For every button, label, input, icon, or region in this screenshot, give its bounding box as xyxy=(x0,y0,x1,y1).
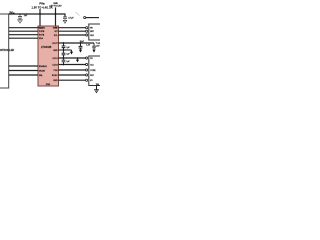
svg-text:VOUT: VOUT xyxy=(52,43,58,45)
wire RSTB left xyxy=(9,34,38,36)
svg-text:ROSC: ROSC xyxy=(52,75,58,77)
ground for C1 xyxy=(18,20,23,23)
svg-text:ENABLE: ENABLE xyxy=(39,65,48,68)
svg-text:LDO2: LDO2 xyxy=(52,64,58,66)
terminal aux xyxy=(84,17,86,19)
terminal INT xyxy=(86,30,88,32)
wire GND rail xyxy=(59,49,72,51)
svg-text:GND: GND xyxy=(53,80,58,82)
svg-text:CONTROLLER: CONTROLLER xyxy=(0,49,14,52)
terminal LDO2 xyxy=(86,63,88,65)
svg-text:SDA: SDA xyxy=(39,37,44,40)
wire VOUT rail xyxy=(59,42,95,44)
terminal PG xyxy=(86,27,88,29)
svg-text:4.7µF: 4.7µF xyxy=(68,17,74,19)
wire PVIN drop xyxy=(39,9,41,26)
svg-text:MODE: MODE xyxy=(39,70,46,72)
terminal GND2 xyxy=(86,79,88,81)
ground arrow LDO1 rail xyxy=(77,58,79,60)
svg-text:LDO1: LDO1 xyxy=(52,58,58,60)
junction LDO2 xyxy=(63,64,65,66)
junction VOUT C3 xyxy=(63,42,65,44)
capacitor C7 xyxy=(62,58,66,65)
svg-text:PGFB: PGFB xyxy=(39,31,45,33)
terminal SCL xyxy=(86,34,88,36)
wire SVIN drop xyxy=(55,7,57,26)
svg-text:CORE: CORE xyxy=(90,70,96,72)
capacitor C6 xyxy=(62,50,66,58)
junction at SVIN rail xyxy=(55,13,57,15)
junction GND C3 xyxy=(63,49,65,51)
ground arrow GND rail xyxy=(71,50,73,52)
svg-text:PG: PG xyxy=(55,28,58,30)
junction C1 rail xyxy=(19,13,21,15)
ground for C2 xyxy=(63,20,67,23)
junction at PVIN rail xyxy=(39,13,41,15)
svg-text:1.8V: 1.8V xyxy=(96,46,100,48)
wire INT to load xyxy=(59,30,86,32)
PVIN input rail xyxy=(9,13,56,15)
ground load2 xyxy=(95,90,99,93)
load block 2 xyxy=(89,56,102,86)
wire MODE xyxy=(9,70,38,72)
svg-text:GND: GND xyxy=(46,84,51,86)
wire LDO1 rail xyxy=(59,57,86,59)
svg-text:GND: GND xyxy=(53,50,58,52)
load block 1 xyxy=(89,24,102,40)
mark diagonal xyxy=(76,12,80,16)
capacitor C2 xyxy=(63,17,67,20)
IC U1 LTC3445 xyxy=(38,26,59,86)
wire aux xyxy=(86,17,99,19)
terminal PGOOD2 xyxy=(86,69,88,71)
wire ROSC rail xyxy=(59,74,86,76)
junction LDO1 xyxy=(63,57,65,59)
wire PGOOD2 rail xyxy=(59,69,86,71)
wire SEL xyxy=(9,74,38,76)
svg-text:RSTB: RSTB xyxy=(39,35,45,37)
svg-text:2.5V TO 5.5V: 2.5V TO 5.5V xyxy=(50,6,63,8)
wire SCL to load xyxy=(59,34,86,36)
svg-text:LTC3445: LTC3445 xyxy=(41,46,52,49)
wire LDO2 rail xyxy=(59,64,86,66)
capacitor C3 xyxy=(62,43,66,50)
wire SDA left xyxy=(9,30,38,32)
wire CLKIN left xyxy=(9,37,38,39)
capacitor C5 xyxy=(92,43,96,50)
wire ENABLE xyxy=(9,65,38,67)
wire PG to load xyxy=(59,27,86,29)
terminal ROSC xyxy=(86,74,88,76)
wire SCL left xyxy=(9,27,38,29)
capacitor C1 xyxy=(18,14,22,20)
wire GND2 rail xyxy=(59,79,86,81)
junction VOUT C4 xyxy=(80,42,82,44)
ground arrow C4 xyxy=(79,50,82,53)
terminal LDO1 xyxy=(86,57,88,59)
svg-text:CLKIN: CLKIN xyxy=(39,28,45,30)
capacitor C4 xyxy=(79,43,83,50)
wire branch to C2 xyxy=(56,14,66,17)
svg-text:SVIN: SVIN xyxy=(53,3,57,5)
controller block xyxy=(0,14,9,88)
ground arrow C5 xyxy=(92,50,95,53)
wire load2 ground stub xyxy=(96,86,98,90)
